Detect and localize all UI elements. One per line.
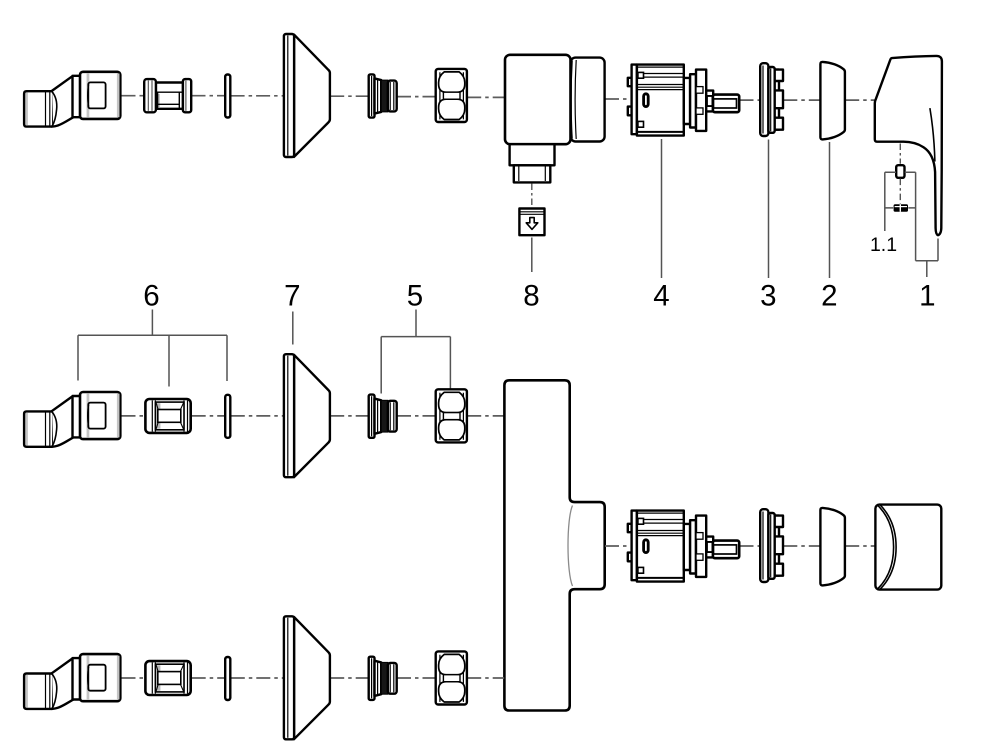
handle screw bbox=[896, 165, 904, 178]
leader bracket 5 bbox=[381, 310, 450, 394]
ring stack (part 3) bbox=[760, 63, 783, 136]
lever handle (part 1) bbox=[875, 56, 942, 235]
seal disc (top row) bbox=[225, 75, 230, 118]
leader 2 bbox=[829, 142, 831, 278]
escutcheon (middle row) bbox=[284, 354, 330, 477]
S-union fitting (bottom row) bbox=[24, 654, 120, 709]
dome cap (part 2) bbox=[820, 62, 845, 140]
centerline top row bbox=[122, 95, 145, 97]
leader 8 bbox=[531, 238, 533, 273]
ring stack (middle assembly) bbox=[760, 509, 783, 582]
cartridge (middle assembly) bbox=[628, 511, 739, 582]
svg-text:1.1: 1.1 bbox=[870, 234, 897, 256]
centerline middle row bbox=[122, 415, 145, 417]
svg-text:8: 8 bbox=[523, 280, 539, 313]
seal disc (bottom row) bbox=[225, 657, 230, 700]
svg-text:7: 7 bbox=[284, 280, 300, 313]
gasket stack (bottom row) bbox=[369, 657, 397, 700]
cartridge (part 4, top row) bbox=[628, 65, 739, 136]
escutcheon (top row) bbox=[284, 34, 330, 157]
escutcheon (bottom row) bbox=[284, 616, 330, 739]
vertical centerline to check valve bbox=[531, 184, 533, 208]
S-union fitting (top row) bbox=[24, 72, 120, 127]
check valve (part 8) bbox=[519, 209, 544, 236]
leader bracket 6 bbox=[78, 310, 227, 387]
leader for 1 bbox=[916, 239, 938, 278]
filter insert (top row) bbox=[144, 79, 191, 112]
leader 4 bbox=[661, 139, 663, 278]
svg-text:4: 4 bbox=[653, 280, 669, 313]
shower mixer body (second faucet) bbox=[504, 380, 604, 710]
handle screw centerline bbox=[899, 144, 901, 164]
gasket stack (top row) bbox=[369, 74, 397, 117]
svg-text:3: 3 bbox=[760, 280, 776, 313]
svg-text:2: 2 bbox=[821, 280, 837, 313]
mixer body (top) bbox=[505, 55, 605, 183]
hex nut (bottom row) bbox=[436, 651, 467, 704]
S-union fitting (middle row) bbox=[24, 392, 120, 447]
svg-text:6: 6 bbox=[143, 280, 159, 313]
seal disc (middle row) bbox=[225, 395, 230, 438]
svg-text:1: 1 bbox=[919, 280, 935, 313]
dome cap (middle assembly) bbox=[820, 508, 845, 586]
leader 7 bbox=[292, 312, 294, 345]
centerline bottom row bbox=[122, 677, 145, 679]
gasket stack (middle row) bbox=[369, 395, 397, 438]
hex nut (top row) bbox=[436, 69, 467, 122]
filter insert (bottom row) bbox=[145, 661, 190, 695]
nut 1.1 bbox=[894, 204, 908, 212]
screw-nut centerline bbox=[899, 179, 901, 204]
svg-text:5: 5 bbox=[407, 280, 423, 313]
centerline middle assembly bbox=[605, 545, 631, 547]
knob cap (middle assembly) bbox=[875, 505, 941, 590]
bracket for 1.1 bbox=[885, 172, 916, 260]
hex nut (middle row) bbox=[436, 389, 467, 442]
leader 3 bbox=[768, 140, 770, 279]
filter insert (middle row) bbox=[145, 399, 190, 433]
